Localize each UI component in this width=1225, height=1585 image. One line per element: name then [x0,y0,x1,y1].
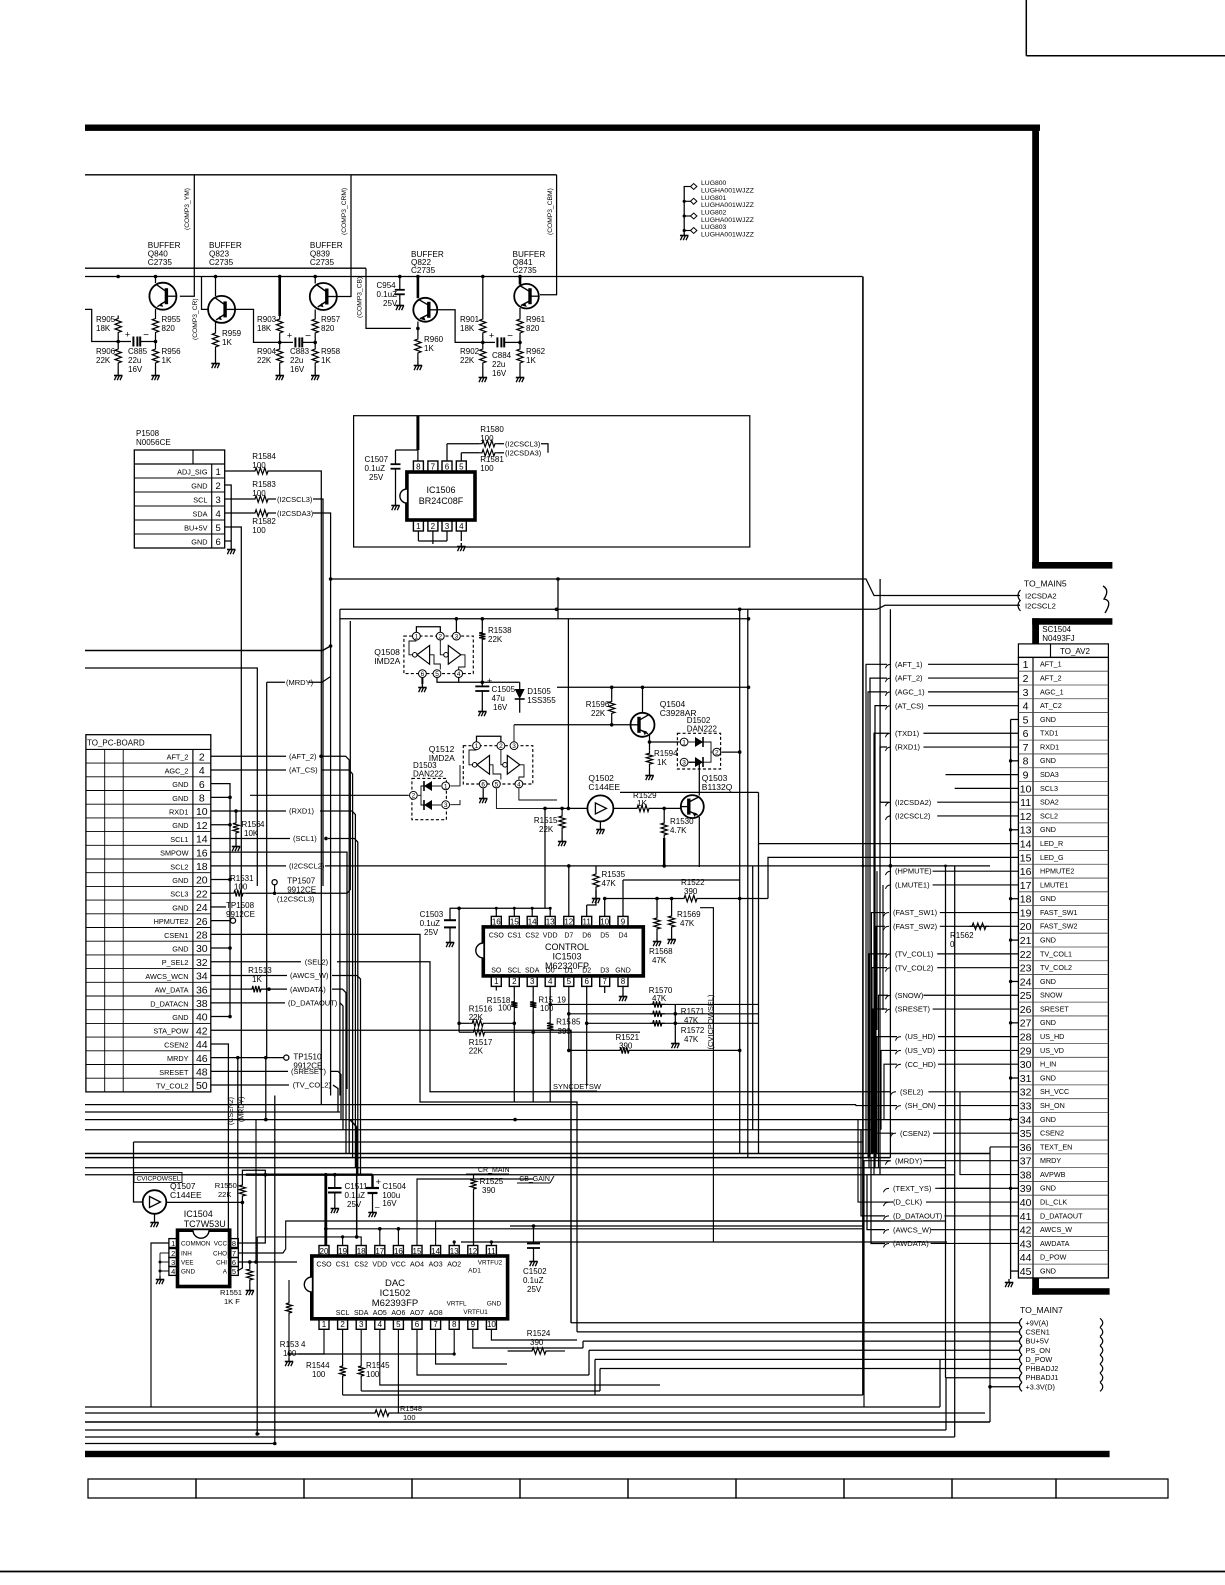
pin 8 IC1504 [230,1239,239,1248]
wire pin2 gnd [225,485,232,541]
wire I2CSDA2 branch row11 [880,579,889,802]
svg-text:16: 16 [492,918,501,927]
pin 1 D1503 [442,782,450,790]
wire [314,310,316,317]
wire GND pin [211,947,230,949]
pin 3 IC1506 [442,521,452,532]
wire riser [531,908,533,916]
svg-text:BR24C08F: BR24C08F [419,496,464,506]
svg-text:AO4: AO4 [410,1262,424,1269]
wire HPMUTE row16 [876,871,878,1030]
svg-text:(MRDY): (MRDY) [895,1156,923,1165]
terminal LUG802 [684,215,690,217]
svg-text:4: 4 [378,1320,383,1329]
svg-text:22K: 22K [469,1013,484,1022]
wire [395,469,397,502]
svg-text:VRTFU2: VRTFU2 [478,1260,503,1267]
subcircuit box IC1506 [354,416,750,547]
svg-text:22: 22 [1020,949,1032,961]
ground [479,374,487,382]
border frame bar above SC1504 [1032,618,1112,625]
svg-text:46: 46 [196,1053,208,1065]
ground [232,843,240,851]
wire FAST_SW rows 19/20 [871,913,885,1154]
svg-text:CS1: CS1 [507,933,521,940]
svg-text:GND: GND [181,1269,195,1276]
svg-text:SO: SO [491,968,502,975]
wire y1443 [85,1443,275,1445]
net label SRESET row 26 [886,1009,892,1013]
wire band y1129.8 [85,1129,875,1131]
wire GND row 24 [1011,980,1019,982]
svg-text:18: 18 [357,1247,366,1256]
wire SCL1 pin14 [211,837,290,839]
wire IC1504 pin1 [151,1243,169,1407]
svg-text:2: 2 [499,743,503,750]
net CSEN1 TO_MAIN7 [1020,1327,1023,1336]
wire vertical x954.7 low [954,1369,956,1438]
resistor R905 [115,316,121,336]
diode array D1502 DAN222 [677,733,720,769]
svg-text:ADJ_SIG: ADJ_SIG [177,468,208,477]
pin 3 IC1502 [356,1319,366,1330]
svg-text:AGC_2: AGC_2 [165,766,189,775]
pin 1 Q1512 [473,742,481,750]
svg-text:R956: R956 [162,347,182,356]
svg-text:SCL2: SCL2 [170,862,188,871]
wire D1503 internal [421,795,424,805]
svg-text:8: 8 [621,977,626,986]
pin 4 IC1503 [545,976,555,987]
svg-text:48: 48 [196,1067,208,1079]
svg-text:(COMP3_CBM): (COMP3_CBM) [547,188,554,235]
wire band y1119.6 [85,1119,1011,1121]
border frame stub below SC1504 table [1032,1278,1039,1295]
svg-text:25V: 25V [424,928,439,937]
svg-text:8: 8 [232,1239,236,1248]
svg-text:(AT_CS): (AT_CS) [895,701,924,710]
svg-text:5: 5 [232,1267,236,1276]
svg-text:R901: R901 [460,315,480,324]
wire row2 feed [870,678,887,1158]
svg-text:LUG800: LUG800 [701,180,727,187]
svg-text:16V: 16V [492,369,507,378]
wire [461,452,479,454]
wire pin2 riser down [513,1023,515,1102]
wire [314,366,316,372]
svg-text:CSEN1: CSEN1 [1026,1327,1050,1336]
svg-text:8: 8 [416,462,421,471]
wire SMPOW pin16 [211,852,347,1089]
wire SCL3 row10 [955,787,1019,789]
svg-text:20: 20 [196,875,208,887]
svg-text:AO6: AO6 [391,1310,405,1317]
svg-text:AO5: AO5 [373,1310,387,1317]
wire Q1504 collector [642,687,644,713]
svg-text:(SEL2): (SEL2) [900,1087,924,1096]
svg-text:29: 29 [1020,1045,1032,1057]
wire y668 [85,668,257,886]
ground IC1506 [457,543,465,551]
svg-text:(FAST_SW2): (FAST_SW2) [893,922,938,931]
border frame top bar [85,125,1040,131]
svg-text:CSO: CSO [316,1262,332,1269]
svg-text:100: 100 [403,1413,416,1422]
svg-text:VDD: VDD [372,1262,387,1269]
ground [396,302,404,310]
svg-text:R1548: R1548 [400,1404,422,1413]
svg-text:SNOW: SNOW [1040,991,1063,1000]
wire IC1504 pin6 CHI [238,1261,297,1263]
net label SH_ON row 33 [896,1106,902,1110]
svg-text:6: 6 [1023,728,1029,740]
svg-text:TO_PC-BOARD: TO_PC-BOARD [87,739,145,748]
svg-text:+9V(A): +9V(A) [1026,1318,1049,1327]
wire row42 feed [867,1175,885,1230]
svg-text:7: 7 [232,1249,236,1258]
svg-text:31: 31 [1020,1073,1032,1085]
svg-text:GND: GND [487,1301,502,1308]
wire Q1508 internal [440,640,443,655]
wire Q1504 emitter [649,735,651,750]
svg-text:(I2CSCL3): (I2CSCL3) [277,495,313,504]
svg-text:1: 1 [682,739,686,746]
wire riser [495,908,497,916]
wire Q822 base [437,310,483,343]
wire Q1502 base [545,807,587,809]
net label TEXT_YS row 39 [884,1188,890,1192]
wire [417,531,419,541]
pin 13 IC1502 [449,1246,459,1257]
wire vertical x752.7 [752,866,754,1130]
svg-text:(AWCS_W): (AWCS_W) [893,1225,932,1234]
svg-text:(I2CSCL3): (I2CSCL3) [505,440,541,449]
border frame right bar bottom cap [1032,562,1112,569]
wire GND bus of SC1504 [1010,719,1012,1271]
wire CSEN1 [577,1331,1019,1333]
wire GND pin [211,796,230,798]
pin 9 IC1502 [468,1319,478,1330]
svg-text:LUGHA001WJZZ: LUGHA001WJZZ [701,202,754,209]
wire pin9 riser [622,880,624,916]
svg-text:41: 41 [1020,1211,1032,1223]
svg-text:IMD2A: IMD2A [374,656,400,666]
svg-text:PS_ON: PS_ON [1026,1346,1051,1355]
svg-text:4: 4 [199,765,205,777]
svg-text:15: 15 [510,918,519,927]
svg-text:20: 20 [1020,921,1032,933]
wire [230,541,232,546]
wire pin3 riser down [532,1032,534,1102]
ground Q1508 [418,684,426,692]
wire Q1512 internal [469,750,477,765]
svg-text:SCL2: SCL2 [1040,811,1058,820]
wire pin4 riser + row y1004.4 [549,986,551,1020]
svg-text:AWDATA: AWDATA [1040,1239,1070,1248]
svg-text:(AFT_2): (AFT_2) [289,752,317,761]
svg-text:1K: 1K [162,356,172,365]
wire SRESET pin48 [211,1070,288,1072]
svg-text:R1582: R1582 [252,517,276,526]
svg-text:INH: INH [181,1251,192,1258]
svg-text:D5: D5 [600,933,609,940]
wire vertical x257.2 [256,1237,258,1434]
svg-text:22u: 22u [492,360,505,369]
svg-text:GND: GND [1040,756,1056,765]
diode array D1503 DAN222 [412,778,447,819]
pin 1 IC1504 [169,1239,178,1248]
svg-text:22K: 22K [257,356,272,365]
svg-text:25V: 25V [383,299,398,308]
pin 5 IC1504 [230,1267,239,1276]
wire [418,540,447,542]
wire [561,831,563,838]
resistor R1517 [459,1031,470,1033]
wire +3.3V(D) [990,1386,1019,1388]
wire pin1 stub [495,986,497,991]
svg-text:(I2CSDA2): (I2CSDA2) [895,798,932,807]
svg-text:D0: D0 [546,968,555,975]
test point TP1508 [211,906,226,908]
wire pin7 D3 [604,986,606,993]
svg-text:+: + [376,1177,382,1188]
net PS_ON TO_MAIN7 [1020,1346,1023,1355]
wire GND row 13 [1011,829,1019,831]
wire [417,356,419,362]
svg-text:R1515: R1515 [534,816,558,825]
wire [118,341,131,343]
inverter symbols Q1512 [477,755,490,774]
svg-text:3: 3 [455,634,459,641]
svg-text:C2735: C2735 [310,258,335,267]
svg-text:11: 11 [1020,797,1031,809]
svg-text:(HPMUTE): (HPMUTE) [895,867,932,876]
pin 20 IC1502 [319,1246,329,1257]
pin 3 Q1512 [510,742,518,750]
svg-text:LMUTE1: LMUTE1 [1040,880,1068,889]
ground SC1504 [1005,1279,1013,1287]
wire SCL2 pin18 [211,865,286,867]
svg-text:17: 17 [1020,880,1032,892]
svg-text:D_DATACN: D_DATACN [150,999,188,1008]
wire pin top rail [450,907,551,909]
resistor R1551 [249,1262,251,1266]
wire riser [513,908,515,916]
svg-text:(CSEN2): (CSEN2) [900,1129,931,1138]
diodes D1502 [695,737,703,747]
svg-text:4: 4 [301,1340,306,1349]
net label US_VD row 29 [896,1050,902,1054]
svg-text:22K: 22K [488,635,503,644]
wire pin8 GND [622,986,624,993]
wire [652,807,681,809]
svg-text:LED_R: LED_R [1040,839,1063,848]
pin 1 D1502 [680,738,688,746]
svg-text:C1511: C1511 [345,1182,369,1191]
svg-text:2: 2 [715,750,719,757]
wire Q1504 to D1502 [650,741,680,743]
junction [555,608,559,612]
wire SNOW row25 [879,995,889,1168]
wire I2CSCL2 down branch [339,609,341,1095]
svg-text:SCL3: SCL3 [170,890,188,899]
svg-text:1K F: 1K F [224,1297,240,1306]
pin 7 IC1502 [431,1319,441,1330]
wire AFT_2 pin2 [211,755,286,757]
svg-text:R1583: R1583 [252,480,276,489]
svg-text:CS1: CS1 [336,1262,350,1269]
wire [482,277,484,317]
svg-text:SMPOW: SMPOW [160,849,188,858]
svg-text:85: 85 [572,1018,581,1027]
svg-text:(D_DATAOUT): (D_DATAOUT) [288,998,338,1007]
pin 10 IC1503 [600,916,610,927]
wire [399,294,401,302]
resistor R1518 [513,986,515,999]
coil PHBADJ2 [1100,1364,1103,1373]
svg-text:25V: 25V [347,1200,362,1209]
svg-text:+: + [125,330,130,340]
wire I2CSCL3 vertical [313,499,323,886]
wire PHBADJ1 [946,1377,1020,1379]
svg-text:(CC_HD): (CC_HD) [905,1060,936,1069]
svg-text:(COMP3_CRM): (COMP3_CRM) [341,188,348,235]
wire [541,444,548,453]
wire band y1174.7 [85,1174,955,1176]
wire Q1508 internal [430,655,441,670]
svg-text:B1132Q: B1132Q [702,782,733,792]
svg-text:(TV_COL1): (TV_COL1) [895,949,934,958]
svg-text:16: 16 [1020,866,1032,878]
svg-text:0.1uZ: 0.1uZ [420,919,441,928]
svg-text:43: 43 [1020,1238,1032,1250]
svg-text:2: 2 [216,481,221,492]
wire band y1157.6 [85,1157,890,1159]
wire band y1112 [85,1111,340,1113]
wire y1221 right [398,1220,890,1222]
resistor R1562 [969,923,989,929]
net label FAST_SW2 row 20 [884,926,890,930]
wire dark y650 [85,646,331,651]
wire I2CSCL2 vertical branch [889,816,891,1158]
svg-text:GND: GND [1040,935,1056,944]
wire AWCS_WCN pin34 [211,974,287,976]
svg-text:0.1uZ: 0.1uZ [345,1191,366,1200]
pin 2 Q1512 [497,742,505,750]
wire GND pin6 [211,784,230,1017]
svg-text:4: 4 [459,522,464,531]
wire [395,450,397,464]
wire y618.8 left part [340,618,557,620]
wire TXD1 row6 [874,733,889,1174]
svg-text:1: 1 [416,522,421,531]
svg-text:8: 8 [199,793,205,805]
svg-text:820: 820 [162,324,176,333]
svg-text:17: 17 [375,1247,384,1256]
svg-text:DAN222: DAN222 [687,725,718,734]
pin 9 IC1503 [618,916,628,927]
wire [498,443,504,445]
pin 1 IC1503 [491,976,501,987]
resistor R1533/4 [298,1330,324,1354]
svg-text:6: 6 [216,537,221,548]
svg-text:22K: 22K [539,825,554,834]
svg-text:33: 33 [1020,1100,1032,1112]
resistor R1583 [252,496,271,502]
svg-text:30: 30 [196,943,208,955]
svg-text:23: 23 [1020,963,1032,975]
svg-text:R904: R904 [257,347,277,356]
svg-text:TP1510: TP1510 [293,1053,322,1062]
svg-text:R1594: R1594 [654,749,678,758]
svg-text:VEE: VEE [181,1260,194,1267]
ground [211,360,219,368]
svg-text:PHBADJ1: PHBADJ1 [1026,1373,1059,1382]
capacitor C1502 [533,1226,535,1244]
wire vertical x739.7 [739,609,741,1153]
ground R1535 [592,895,600,903]
resistor R1522 [681,895,700,901]
wire [399,277,401,290]
terminal LUG803 [684,230,690,232]
pin 3 IC1504 [169,1258,178,1267]
svg-text:R1596: R1596 [586,700,610,709]
junction gnd [228,946,232,950]
svg-text:GND: GND [172,794,188,803]
svg-text:GND: GND [1040,1266,1056,1275]
wire MRDY row37 feed [864,1161,890,1407]
pin 1 IC1502 [319,1319,329,1330]
svg-text:R1571: R1571 [681,1007,705,1016]
resistor R1581 [479,450,498,456]
svg-text:R906: R906 [96,347,116,356]
svg-text:R960: R960 [424,335,444,344]
svg-text:AFT_2: AFT_2 [167,753,189,762]
wire [155,366,157,372]
svg-text:(SRESET): (SRESET) [291,1067,327,1076]
wire HPMUTE2 pin26 [211,920,231,922]
svg-text:R1568: R1568 [649,947,673,956]
svg-text:AWCS_W: AWCS_W [1040,1225,1072,1234]
wire [155,277,157,284]
svg-text:2: 2 [412,793,416,800]
resistor R959 [212,330,218,350]
svg-text:3: 3 [171,1258,175,1267]
pin 6 IC1503 [582,976,592,987]
svg-text:AO7: AO7 [410,1310,424,1317]
svg-text:35: 35 [1020,1128,1032,1140]
ground Q1502 [596,826,604,834]
net PHBADJ1 TO_MAIN7 [1020,1373,1023,1382]
svg-text:GND: GND [1040,894,1056,903]
svg-text:C2735: C2735 [209,258,234,267]
diode D1505 [519,682,521,689]
svg-text:22K: 22K [218,1190,231,1199]
svg-text:R958: R958 [321,347,341,356]
wire D1502 internal [703,752,711,762]
wire [611,716,613,724]
coil BU+5V [1100,1337,1103,1346]
svg-text:21: 21 [1020,935,1032,947]
wire band y1142 [134,1141,863,1143]
svg-text:R1530: R1530 [670,817,694,826]
junction [255,1432,259,1436]
svg-text:MRDY: MRDY [167,1054,189,1063]
svg-text:1: 1 [216,467,221,478]
wire CSEN1 pin28 [211,934,577,1332]
footer title blocks [88,1479,196,1498]
junction [154,275,158,279]
